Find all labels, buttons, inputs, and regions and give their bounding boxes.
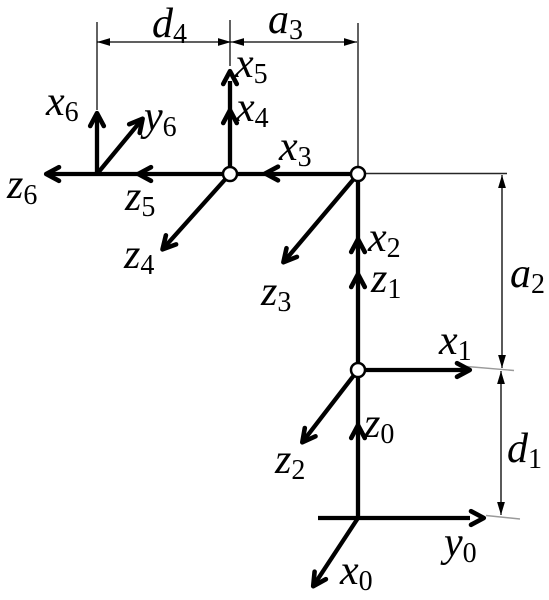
axis arrow z1 (head on link) [351,274,365,287]
svg-text:z3: z3 [260,269,291,318]
axis arrow x1 [358,363,470,377]
extension tick at base level for d1 dimension [486,516,520,520]
axis arrow x0 [313,518,358,586]
dimension d4 line with arrows [97,38,231,46]
extension line for d4 (left, above frame-6 origin) [96,22,98,110]
svg-text:z2: z2 [274,437,305,486]
base cross bar of frame 0 [318,516,470,520]
axis arrow x5 (shaft up from J1) [223,71,237,174]
svg-text:x0: x0 [339,548,373,597]
axis arrow x3 (head on arm) [265,167,278,181]
extension tick at x1 level for a2/d1 dimension [461,366,514,371]
main vertical link (J2 down to base) [356,174,360,518]
dimension a3 line with arrows [231,38,357,46]
joint circle J2 (elbow, frame 3) [351,167,365,181]
axis arrow x4 (head on x5 shaft) [223,110,237,123]
svg-text:y0: y0 [440,520,477,569]
axis arrow z5 (head on arm) [138,167,151,181]
extension line between d4 and a3 (above x5 arrow) [229,20,231,66]
axis arrow x2 (head on link) [351,239,365,252]
svg-text:d1: d1 [507,426,542,475]
svg-text:x5: x5 [234,41,268,90]
axis arrow y6 [97,119,143,174]
axis arrow z0 (head on base link) [351,425,365,438]
svg-text:y6: y6 [140,94,177,143]
svg-text:z6: z6 [6,162,37,211]
svg-text:x6: x6 [45,79,79,128]
svg-text:a2: a2 [510,251,545,300]
svg-text:x1: x1 [438,318,472,367]
axis arrow z3 [283,174,358,262]
svg-text:a3: a3 [268,0,303,46]
svg-text:x4: x4 [235,85,269,134]
horizontal arm link (frames 4-6) [51,172,358,176]
axis arrow z6 [46,167,59,181]
joint circle J3 (shoulder, frames 1/2) [351,363,365,377]
dimension d1 line with arrows [497,371,505,515]
svg-text:d4: d4 [152,1,187,50]
axis arrow z2 [302,370,358,442]
joint circle J1 (wrist, frames 4/5) [223,167,237,181]
axis arrow x6 [90,113,104,174]
extension line from J2 to a2 dimension [365,173,507,175]
dimension a2 line with arrows [498,175,506,368]
svg-text:z0: z0 [363,401,394,450]
extension line above joint J2 (right end of a3) [357,23,359,167]
svg-text:z4: z4 [123,232,154,281]
axis arrow y0 [471,511,484,525]
svg-text:x3: x3 [278,124,312,173]
axis arrow z4 [163,174,231,249]
